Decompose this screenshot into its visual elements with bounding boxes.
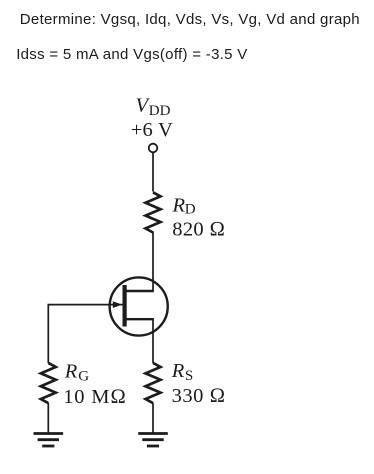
svg-text:S: S	[185, 368, 193, 384]
svg-text:820 Ω: 820 Ω	[172, 218, 225, 240]
svg-text:+6 V: +6 V	[131, 119, 173, 141]
svg-text:R: R	[172, 194, 186, 216]
svg-text:330 Ω: 330 Ω	[172, 385, 226, 407]
svg-text:R: R	[64, 361, 78, 383]
svg-text:R: R	[171, 360, 185, 382]
svg-text:G: G	[78, 369, 89, 385]
svg-text:D: D	[185, 202, 196, 218]
svg-text:10 MΩ: 10 MΩ	[63, 386, 127, 408]
svg-text:DD: DD	[149, 103, 171, 119]
